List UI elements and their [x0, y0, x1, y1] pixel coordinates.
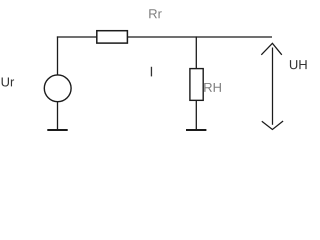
- wire: junction on top wire down to RH top: [195, 36, 197, 68]
- label Ur: [2, 77, 15, 86]
- label Rr: [149, 9, 161, 18]
- wire: top horizontal from Rr right to right end: [128, 36, 273, 38]
- voltage source U1 (circle): [44, 75, 71, 102]
- ground (right, under RH): [186, 129, 206, 131]
- resistor Rr: [97, 31, 128, 43]
- wire: RH bottom to ground: [195, 100, 197, 130]
- ground (left, under source): [47, 129, 67, 131]
- label I: [151, 67, 152, 77]
- wire: left vertical from top wire down to source top: [57, 36, 59, 75]
- resistor RH: [190, 69, 203, 101]
- wire: source bottom to ground: [57, 101, 59, 130]
- wire: top horizontal from source to Rr left: [57, 36, 97, 38]
- label UH: [290, 60, 307, 69]
- arrow UH (voltage arrow, double-headed vertical): [261, 43, 283, 129]
- label RH: [204, 83, 221, 92]
